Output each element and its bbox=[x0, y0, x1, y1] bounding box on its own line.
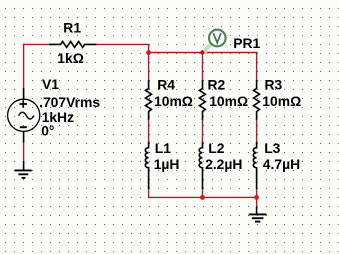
V1 sine symbol bbox=[19, 112, 34, 119]
wire: L1 bottom to bottom bus bbox=[148, 188, 150, 197]
svg-text:L3: L3 bbox=[264, 140, 280, 156]
wire: column3 drop to R3 bbox=[256, 53, 258, 82]
wire: V1 bottom to ground bbox=[23, 143, 25, 162]
svg-text:L1: L1 bbox=[155, 140, 171, 156]
wire: L2 bottom to bottom bus bbox=[202, 188, 204, 197]
probe PR1 V letter bbox=[213, 33, 221, 43]
inductor L1 (vertical, arcs bulge left) bbox=[145, 143, 148, 189]
wire: top horizontal left segment to R1 bbox=[24, 43, 50, 45]
svg-text:R3: R3 bbox=[265, 77, 283, 93]
svg-text:R4: R4 bbox=[157, 77, 175, 93]
svg-text:R2: R2 bbox=[208, 77, 226, 93]
svg-text:V1: V1 bbox=[42, 76, 59, 92]
junction node bottom bus x=202.5 bbox=[200, 195, 205, 200]
svg-text:.707Vrms: .707Vrms bbox=[39, 94, 100, 110]
V1 minus sign bbox=[20, 126, 27, 128]
resistor R1 (horizontal) bbox=[50, 41, 96, 47]
ground (left, below V1) bbox=[15, 161, 32, 178]
probe PR1 tip arrow bbox=[199, 50, 205, 54]
svg-text:1kΩ: 1kΩ bbox=[57, 50, 84, 66]
inductor L2 (vertical) bbox=[199, 143, 202, 189]
wire: top-left vertical from corner to V1 top bbox=[23, 44, 25, 88]
probe PR1 circle bbox=[209, 30, 226, 47]
resistor R3 (vertical) bbox=[254, 81, 260, 119]
wire: R1 right to corner at x=149 bbox=[96, 44, 149, 52]
svg-text:2.2µH: 2.2µH bbox=[205, 156, 242, 172]
svg-text:PR1: PR1 bbox=[233, 35, 260, 51]
probe PR1 handle bbox=[203, 42, 213, 53]
svg-text:L2: L2 bbox=[208, 140, 224, 156]
svg-text:4.7µH: 4.7µH bbox=[263, 156, 300, 172]
probe PR1 tip (tan) bbox=[203, 50, 208, 53]
wire: R4 to L1 bbox=[148, 119, 150, 143]
resistor R2 (vertical) bbox=[199, 81, 205, 119]
wire: column2 drop to R2 bbox=[202, 53, 204, 82]
inductor L3 (vertical) bbox=[253, 143, 256, 189]
wire: column1 drop to R4 bbox=[148, 53, 150, 82]
wire: R2 to L2 bbox=[202, 119, 204, 143]
resistor R4 (vertical) bbox=[146, 81, 152, 119]
V1 plus sign bbox=[19, 100, 27, 107]
wire: L3 bottom to bottom bus bbox=[256, 188, 258, 197]
svg-text:R1: R1 bbox=[63, 20, 81, 36]
svg-text:0°: 0° bbox=[41, 123, 54, 139]
svg-text:10mΩ: 10mΩ bbox=[154, 93, 193, 109]
junction node probe attach x=202.5 top bbox=[201, 51, 205, 55]
svg-text:1µH: 1µH bbox=[154, 156, 180, 172]
junction node at bus corner x=149 bbox=[146, 50, 151, 55]
junction node bottom bus x=256.6 bbox=[254, 195, 259, 200]
wire: ground stub bottom-right bbox=[256, 197, 258, 207]
wire: top bus y=52.5 bbox=[149, 52, 257, 54]
AC source V1 circle bbox=[8, 88, 40, 143]
ground (bottom-right) bbox=[249, 207, 267, 222]
svg-text:10mΩ: 10mΩ bbox=[262, 93, 301, 109]
svg-text:10mΩ: 10mΩ bbox=[209, 93, 248, 109]
wire: bottom bus y=197 bbox=[149, 196, 257, 198]
wire: R3 to L3 bbox=[256, 119, 258, 143]
